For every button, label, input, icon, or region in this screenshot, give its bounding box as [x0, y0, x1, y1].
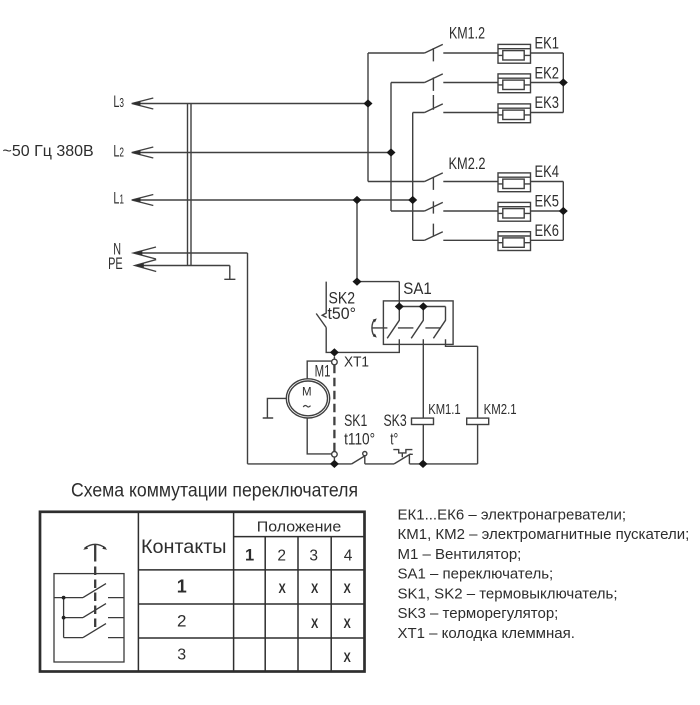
svg-text:3: 3	[177, 647, 186, 664]
svg-text:t110°: t110°	[344, 429, 375, 448]
svg-text:L2: L2	[113, 142, 124, 161]
svg-text:EK3: EK3	[535, 93, 560, 112]
svg-text:KM1.2: KM1.2	[449, 23, 485, 42]
svg-text:X: X	[279, 580, 287, 596]
svg-text:t50°: t50°	[328, 304, 357, 323]
svg-text:PE: PE	[108, 255, 123, 273]
svg-text:1: 1	[245, 546, 254, 564]
svg-text:3: 3	[309, 547, 318, 564]
svg-text:L3: L3	[113, 92, 124, 111]
svg-text:SK1, SK2 – термовыключатель;: SK1, SK2 – термовыключатель;	[398, 585, 618, 602]
svg-text:Положение: Положение	[257, 520, 342, 536]
svg-text:M: M	[302, 387, 312, 399]
svg-text:X: X	[344, 649, 352, 665]
svg-text:SA1: SA1	[403, 279, 432, 298]
svg-text:M1: M1	[315, 362, 331, 380]
svg-text:EK5: EK5	[535, 192, 560, 211]
svg-text:XT1 – колодка клеммная.: XT1 – колодка клеммная.	[398, 625, 575, 642]
svg-text:XT1: XT1	[344, 354, 369, 371]
svg-text:ЕК1...ЕК6 – электронагревател: ЕК1...ЕК6 – электронагреватели;	[398, 506, 627, 523]
svg-text:X: X	[344, 580, 352, 596]
svg-text:EK6: EK6	[535, 221, 560, 240]
svg-text:2: 2	[277, 547, 286, 564]
svg-text:EK4: EK4	[535, 162, 560, 181]
svg-text:L1: L1	[113, 189, 124, 208]
svg-text:X: X	[311, 615, 319, 631]
svg-text:~50 Гц 380В: ~50 Гц 380В	[3, 143, 94, 160]
svg-text:SK3 – терморегулятор;: SK3 – терморегулятор;	[398, 605, 559, 622]
svg-text:4: 4	[344, 547, 353, 564]
svg-text:1: 1	[177, 577, 187, 597]
svg-text:EK2: EK2	[535, 63, 560, 82]
svg-text:Контакты: Контакты	[141, 536, 227, 558]
svg-text:2: 2	[177, 611, 186, 630]
svg-text:SK3: SK3	[384, 411, 407, 430]
svg-text:SK1: SK1	[344, 411, 367, 430]
svg-text:Схема коммутации переключателя: Схема коммутации переключателя	[71, 480, 358, 501]
svg-text:SA1 – переключатель;: SA1 – переключатель;	[398, 566, 554, 583]
svg-text:KM2.2: KM2.2	[449, 154, 486, 173]
svg-text:KM2.1: KM2.1	[484, 401, 517, 418]
svg-text:KM1.1: KM1.1	[428, 401, 461, 418]
svg-text:EK1: EK1	[535, 34, 560, 53]
svg-text:t°: t°	[390, 429, 398, 448]
svg-text:X: X	[311, 580, 319, 596]
svg-text:КМ1, КМ2 – электромагнитные: КМ1, КМ2 – электромагнитные пускатели;	[398, 526, 690, 543]
svg-text:М1 – Вентилятор;: М1 – Вентилятор;	[398, 546, 522, 563]
svg-text:X: X	[344, 615, 352, 631]
